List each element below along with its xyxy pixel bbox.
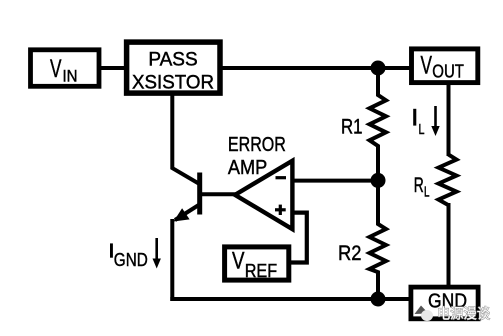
svg-text:V: V <box>232 247 245 274</box>
resistor RL <box>414 155 457 205</box>
op-amp U1 error amp <box>235 161 292 229</box>
wire plus input to VREF <box>291 213 307 263</box>
wire RL to GND <box>447 203 451 287</box>
svg-text:XSISTOR: XSISTOR <box>132 71 214 93</box>
resistor R2 <box>338 180 386 299</box>
wire minus input to R1 R2 junction <box>294 179 378 183</box>
svg-text:L: L <box>424 185 430 201</box>
wire emitter down to ground rail <box>170 219 174 301</box>
label ERROR AMP <box>228 134 286 179</box>
svg-text:GND: GND <box>114 250 148 270</box>
svg-text:V: V <box>421 52 433 80</box>
wire ground rail <box>170 297 411 301</box>
svg-text:ERROR: ERROR <box>228 134 286 156</box>
label IGND with arrow <box>110 238 161 270</box>
wire VOUT down to RL <box>447 82 451 156</box>
box PASS XSISTOR U2 <box>127 42 220 93</box>
wire PASS bottom to collector <box>170 93 174 168</box>
box GND <box>411 287 478 319</box>
node top junction <box>371 61 386 76</box>
svg-text:AMP: AMP <box>228 157 267 179</box>
wire PASS to VOUT <box>220 66 411 70</box>
wire VIN to PASS <box>99 66 126 70</box>
wire base to error amp <box>201 192 236 196</box>
svg-text:电源漫谈: 电源漫谈 <box>437 306 490 322</box>
box VREF <box>225 247 289 281</box>
box VOUT <box>412 49 478 83</box>
svg-text:PASS: PASS <box>148 49 197 71</box>
watermark logo <box>415 306 434 322</box>
transistor Q1 <box>171 167 202 221</box>
node bottom junction <box>371 292 386 307</box>
svg-text:R2: R2 <box>338 242 362 265</box>
svg-text:IN: IN <box>63 67 78 86</box>
label IL with arrow <box>413 106 440 138</box>
svg-text:OUT: OUT <box>432 62 464 82</box>
box VIN <box>31 50 100 87</box>
svg-text:REF: REF <box>245 260 277 281</box>
svg-text:R: R <box>414 174 424 197</box>
svg-text:V: V <box>50 55 62 83</box>
svg-text:L: L <box>419 122 425 138</box>
resistor R1 <box>341 68 386 180</box>
svg-text:R1: R1 <box>341 116 363 139</box>
node R1 R2 junction <box>371 173 386 188</box>
